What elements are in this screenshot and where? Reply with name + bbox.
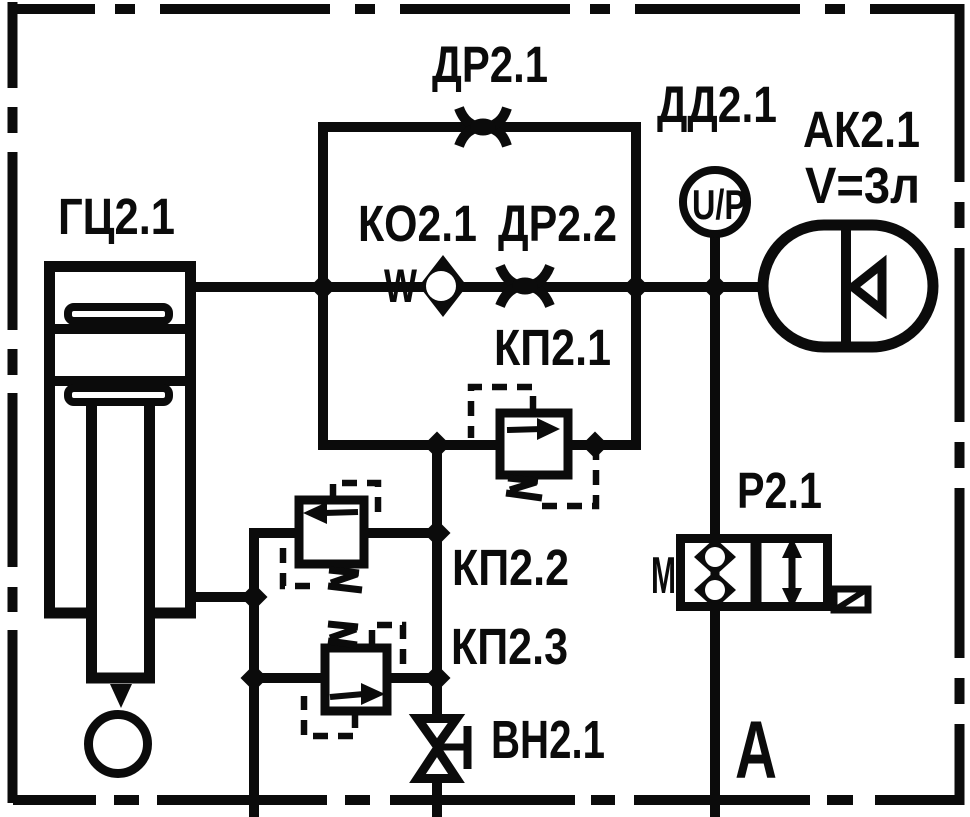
- svg-text:ДР2.2: ДР2.2: [498, 195, 617, 252]
- svg-text:АК2.1: АК2.1: [803, 101, 920, 158]
- svg-text:ДР2.1: ДР2.1: [432, 36, 548, 93]
- svg-text:U/P: U/P: [692, 181, 746, 228]
- svg-text:КП2.2: КП2.2: [452, 539, 569, 596]
- svg-text:КО2.1: КО2.1: [358, 195, 477, 252]
- svg-text:Р2.1: Р2.1: [737, 462, 822, 519]
- svg-text:А: А: [735, 705, 777, 796]
- svg-text:КП2.3: КП2.3: [451, 618, 568, 675]
- svg-text:М: М: [651, 547, 676, 605]
- svg-text:ГЦ2.1: ГЦ2.1: [58, 188, 175, 245]
- svg-text:ВН2.1: ВН2.1: [491, 710, 605, 770]
- svg-text:V=3л: V=3л: [805, 157, 920, 214]
- svg-text:W: W: [384, 259, 417, 312]
- svg-text:ДД2.1: ДД2.1: [657, 76, 777, 133]
- svg-text:КП2.1: КП2.1: [494, 319, 611, 376]
